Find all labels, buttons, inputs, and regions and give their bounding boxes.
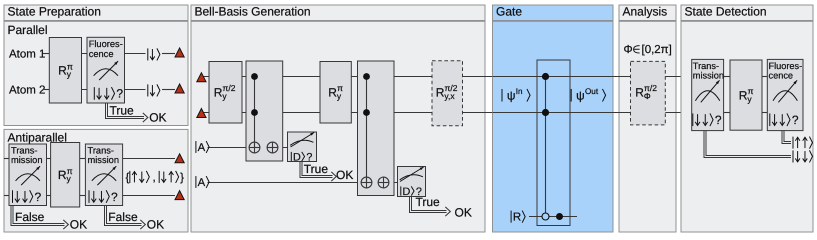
svg-text:cence: cence bbox=[769, 71, 794, 81]
svg-text:OK: OK bbox=[455, 206, 472, 220]
svg-text:Parallel: Parallel bbox=[8, 23, 48, 37]
svg-text:R: R bbox=[739, 88, 748, 102]
panel Antiparallel frame bbox=[4, 129, 188, 232]
svg-text:π: π bbox=[67, 166, 73, 176]
svg-text:False: False bbox=[108, 210, 138, 224]
gate Ry-pi bell bbox=[320, 62, 351, 124]
measurement Fluorescence parallel bbox=[87, 37, 125, 103]
panel Bell-Basis Generation frame bbox=[191, 21, 485, 232]
gate CNOT block 2 bbox=[358, 61, 395, 196]
state ket upup bbox=[792, 137, 794, 149]
node ket A1 bbox=[195, 141, 197, 153]
panel State Detection frame bbox=[681, 21, 813, 232]
marker triangle out1 bbox=[175, 48, 184, 57]
wire qubit1 main bbox=[201, 76, 692, 78]
svg-text:OK: OK bbox=[149, 110, 166, 124]
svg-text:R: R bbox=[513, 212, 521, 224]
wire qubit2 analysis segment bbox=[613, 112, 692, 114]
svg-text:R: R bbox=[635, 85, 644, 99]
panel State Detection header bbox=[681, 5, 813, 21]
control open circle on R bbox=[542, 213, 549, 220]
svg-text:ψ: ψ bbox=[507, 89, 516, 103]
svg-text:True: True bbox=[416, 195, 441, 209]
svg-text:Trans-: Trans- bbox=[88, 146, 115, 156]
svg-text:?: ? bbox=[116, 87, 123, 101]
measurement Transmission antiparallel-2 bbox=[85, 144, 122, 206]
state ket down atom1 bbox=[147, 48, 149, 60]
svg-text:Atom 1: Atom 1 bbox=[9, 49, 45, 61]
wire antiparallel row2 bbox=[4, 195, 9, 197]
svg-text:π/2: π/2 bbox=[445, 83, 458, 93]
wire R photon bbox=[529, 216, 577, 218]
measurement Fluorescence detection bbox=[767, 59, 803, 130]
panel Analysis frame bbox=[619, 21, 676, 232]
svg-text:R: R bbox=[58, 64, 67, 78]
svg-text:A: A bbox=[198, 177, 206, 189]
svg-text:State Detection: State Detection bbox=[685, 4, 767, 18]
wire qubit1 gate segment bbox=[493, 76, 614, 78]
node ket A2 bbox=[195, 176, 197, 188]
marker triangle in2 bbox=[197, 109, 206, 118]
panel Gate frame blue bbox=[493, 21, 614, 232]
svg-text:π: π bbox=[748, 86, 754, 96]
svg-text:OK: OK bbox=[336, 168, 353, 182]
classical False arrow 1 to OK bbox=[11, 206, 65, 226]
panel Analysis header bbox=[619, 5, 676, 21]
classical True arrow D1 to OK bbox=[300, 162, 333, 178]
wire qubit1 analysis segment bbox=[613, 76, 692, 78]
node ket R bbox=[510, 211, 512, 223]
svg-text:?: ? bbox=[111, 190, 118, 204]
svg-text:True: True bbox=[110, 104, 135, 118]
wire qubit2 gate segment bbox=[493, 112, 614, 114]
svg-text:Analysis: Analysis bbox=[623, 4, 668, 18]
wire ancilla A2 bbox=[208, 182, 398, 184]
svg-text:?: ? bbox=[792, 113, 799, 127]
classical False arrow 2 to OK bbox=[105, 206, 142, 226]
gate CNOT block 1 bbox=[246, 61, 283, 161]
gate Ryx-pi/2 dashed bbox=[432, 61, 463, 126]
svg-text:mission: mission bbox=[693, 71, 724, 81]
svg-text:A: A bbox=[198, 142, 206, 154]
svg-text:D: D bbox=[402, 186, 410, 198]
gate Rphi-pi/2 dashed bbox=[631, 61, 666, 125]
svg-text:True: True bbox=[304, 162, 329, 176]
svg-text:{: { bbox=[126, 172, 130, 184]
svg-text:R: R bbox=[436, 85, 445, 99]
control dot q1 bbox=[542, 73, 549, 80]
marker triangle anti1 bbox=[175, 154, 184, 163]
wire atom2 bbox=[43, 89, 49, 91]
measurement Transmission antiparallel-1 bbox=[9, 144, 47, 206]
classical line to up-up bbox=[782, 131, 791, 144]
state ket psi-out bbox=[570, 89, 572, 102]
classical True arrow D2 to OK bbox=[410, 197, 447, 213]
svg-text:Trans-: Trans- bbox=[11, 146, 38, 156]
measurement D1 bbox=[288, 132, 317, 162]
wire antiparallel row1 bbox=[4, 158, 9, 160]
svg-text:?: ? bbox=[35, 190, 42, 204]
svg-text:Atom 2: Atom 2 bbox=[9, 85, 45, 97]
state ket psi-in bbox=[501, 89, 503, 102]
wire atom1 bbox=[43, 53, 49, 55]
measurement D2 bbox=[398, 167, 426, 197]
marker triangle out2 bbox=[175, 84, 184, 93]
svg-text:mission: mission bbox=[88, 155, 120, 165]
svg-text:,: , bbox=[152, 172, 155, 184]
svg-text:π/2: π/2 bbox=[223, 83, 236, 93]
panel Parallel frame bbox=[4, 21, 188, 125]
classical line to down-down bbox=[704, 131, 791, 158]
svg-text:Bell-Basis Generation: Bell-Basis Generation bbox=[195, 4, 311, 18]
panel Gate header bbox=[493, 5, 614, 21]
svg-text:π: π bbox=[67, 61, 73, 71]
svg-text:[0,2π]: [0,2π] bbox=[642, 44, 672, 56]
gate box controlled-Z bbox=[537, 60, 570, 226]
gate Ry-pi antiparallel bbox=[51, 143, 80, 208]
svg-text:cence: cence bbox=[89, 49, 114, 59]
wire ancilla A1 bbox=[208, 147, 288, 149]
panel State Preparation header bbox=[4, 5, 188, 21]
control dot q2 bbox=[542, 109, 549, 116]
classical True arrow to OK (parallel) bbox=[106, 103, 145, 119]
svg-text:Fluores-: Fluores- bbox=[89, 39, 123, 49]
svg-text:R: R bbox=[58, 168, 67, 182]
svg-text:R: R bbox=[214, 85, 223, 99]
marker triangle anti2 bbox=[175, 191, 184, 200]
wire control vertical bbox=[545, 77, 547, 217]
wire qubit2 main bbox=[201, 112, 692, 114]
svg-text:R: R bbox=[328, 85, 337, 99]
svg-text:OK: OK bbox=[147, 218, 164, 232]
svg-text:}: } bbox=[180, 172, 184, 184]
gate Ry-pi detection bbox=[730, 60, 762, 130]
svg-text:?: ? bbox=[715, 113, 722, 127]
panel Bell-Basis Generation header bbox=[191, 5, 485, 21]
svg-text:Out: Out bbox=[585, 87, 599, 96]
svg-text:Φ: Φ bbox=[624, 44, 633, 56]
state ket down atom2 bbox=[147, 84, 149, 96]
svg-text:mission: mission bbox=[11, 155, 43, 165]
marker triangle in1 bbox=[197, 73, 206, 82]
gate Ry-pi/2 bbox=[209, 62, 242, 124]
svg-text:π: π bbox=[337, 83, 343, 93]
svg-text:ψ: ψ bbox=[576, 89, 585, 103]
control dot on R bbox=[556, 213, 563, 220]
svg-text:Gate: Gate bbox=[496, 4, 522, 18]
svg-text:π/2: π/2 bbox=[644, 83, 657, 93]
svg-text:State Preparation: State Preparation bbox=[8, 4, 101, 18]
wire stubs between detection boxes bbox=[724, 76, 730, 78]
svg-text:False: False bbox=[15, 210, 45, 224]
svg-text:OK: OK bbox=[70, 218, 87, 232]
measurement Transmission detection bbox=[692, 59, 724, 130]
svg-text:In: In bbox=[516, 87, 523, 96]
state ket downdown bbox=[792, 150, 794, 162]
gate Ry-pi parallel bbox=[49, 38, 81, 104]
